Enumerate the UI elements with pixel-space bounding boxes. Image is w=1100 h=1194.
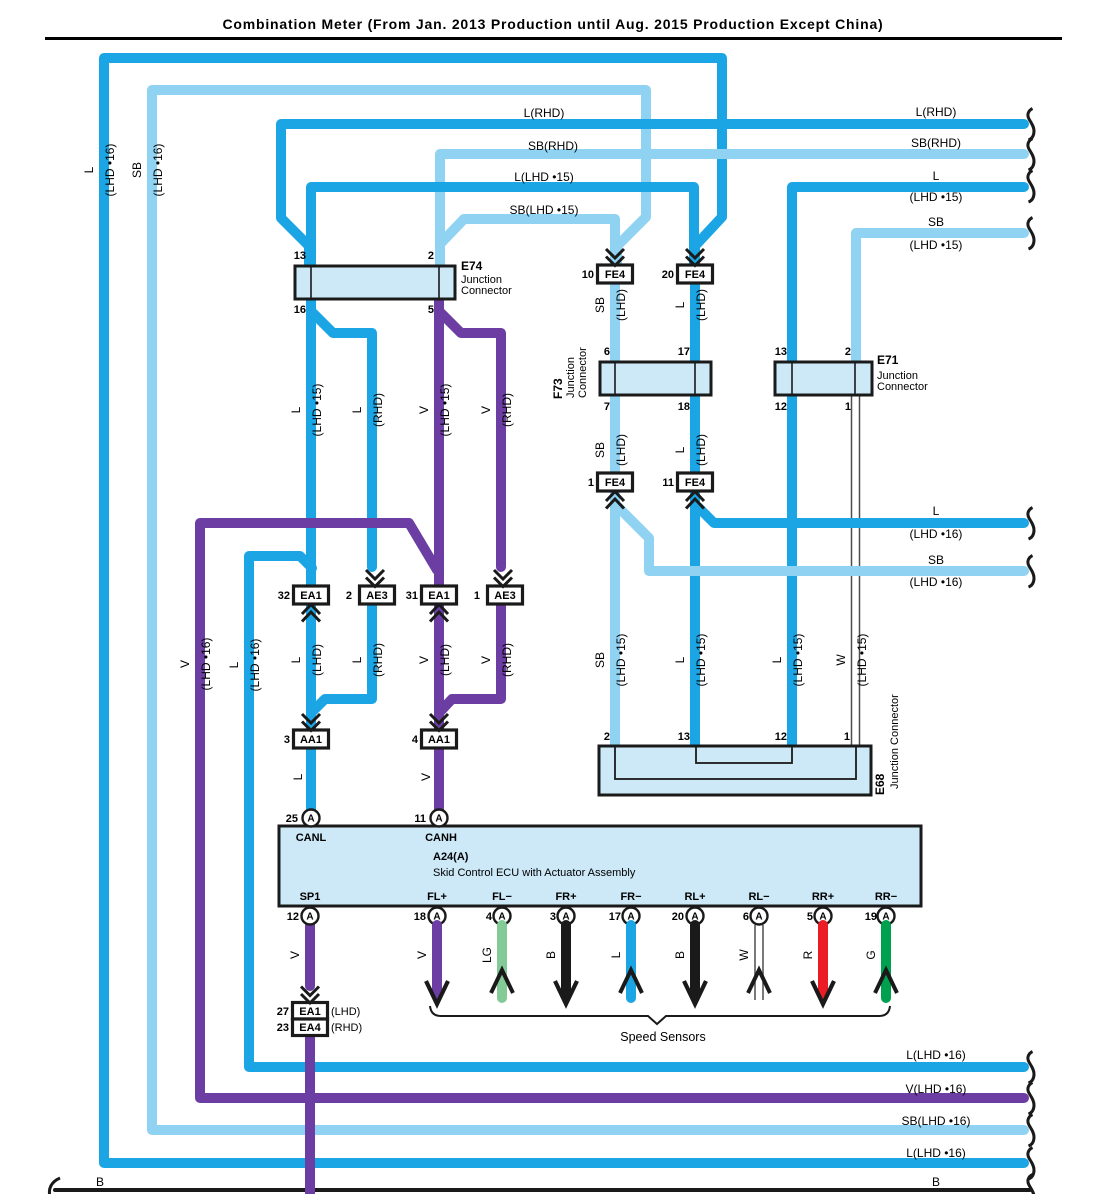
svg-text:V: V — [417, 656, 431, 664]
svg-text:(LHD •15): (LHD •15) — [910, 238, 963, 252]
svg-text:(LHD •16): (LHD •16) — [103, 144, 117, 197]
svg-text:23: 23 — [277, 1022, 289, 1034]
svg-text:FL−: FL− — [492, 891, 512, 903]
svg-text:Connector: Connector — [877, 381, 928, 393]
svg-text:2: 2 — [604, 731, 610, 743]
svg-text:(LHD): (LHD) — [310, 644, 324, 676]
svg-text:(LHD •15): (LHD •15) — [438, 384, 452, 437]
svg-text:RL+: RL+ — [684, 891, 705, 903]
svg-text:FE4: FE4 — [605, 477, 626, 489]
svg-text:FE4: FE4 — [605, 269, 626, 281]
svg-text:L: L — [770, 656, 784, 663]
svg-text:SB: SB — [928, 215, 944, 229]
svg-text:(LHD •15): (LHD •15) — [791, 634, 805, 687]
svg-text:18: 18 — [414, 911, 426, 923]
svg-text:(LHD •16): (LHD •16) — [151, 144, 165, 197]
svg-text:18: 18 — [678, 401, 690, 413]
svg-text:AE3: AE3 — [494, 590, 515, 602]
svg-text:12: 12 — [775, 731, 787, 743]
svg-text:L: L — [289, 406, 303, 413]
svg-text:L(LHD •16): L(LHD •16) — [906, 1048, 966, 1062]
svg-text:13: 13 — [294, 250, 306, 262]
svg-text:FL+: FL+ — [427, 891, 447, 903]
svg-text:7: 7 — [604, 401, 610, 413]
svg-text:(LHD): (LHD) — [694, 434, 708, 466]
svg-text:V: V — [479, 656, 493, 664]
svg-text:EA1: EA1 — [300, 590, 321, 602]
svg-text:11: 11 — [662, 477, 674, 489]
svg-text:E71: E71 — [877, 353, 899, 367]
svg-text:Connector: Connector — [461, 285, 512, 297]
svg-text:V: V — [419, 773, 433, 781]
svg-text:SB: SB — [593, 442, 607, 458]
svg-text:L: L — [673, 446, 687, 453]
svg-text:32: 32 — [278, 590, 290, 602]
svg-text:B: B — [932, 1175, 940, 1189]
svg-text:FR−: FR− — [620, 891, 641, 903]
svg-text:L: L — [673, 656, 687, 663]
svg-text:B: B — [544, 951, 558, 959]
svg-text:RR+: RR+ — [812, 891, 834, 903]
svg-text:6: 6 — [604, 346, 610, 358]
svg-text:17: 17 — [609, 911, 621, 923]
svg-text:20: 20 — [672, 911, 684, 923]
svg-text:V: V — [288, 951, 302, 959]
svg-text:G: G — [864, 950, 878, 959]
svg-text:L: L — [227, 661, 241, 668]
svg-text:V: V — [415, 951, 429, 959]
svg-text:6: 6 — [743, 911, 749, 923]
svg-text:13: 13 — [678, 731, 690, 743]
svg-text:L: L — [350, 406, 364, 413]
svg-text:Speed Sensors: Speed Sensors — [620, 1030, 705, 1044]
svg-text:(LHD •15): (LHD •15) — [855, 634, 869, 687]
svg-text:16: 16 — [294, 304, 306, 316]
svg-text:E68: E68 — [873, 773, 887, 795]
svg-text:W: W — [737, 949, 751, 961]
svg-text:17: 17 — [678, 346, 690, 358]
svg-text:FR+: FR+ — [555, 891, 576, 903]
svg-text:E74: E74 — [461, 259, 483, 273]
svg-text:3: 3 — [284, 734, 290, 746]
svg-text:27: 27 — [277, 1006, 289, 1018]
svg-text:12: 12 — [287, 911, 299, 923]
svg-text:L: L — [350, 656, 364, 663]
svg-text:Combination Meter (From Jan. 2: Combination Meter (From Jan. 2013 Produc… — [223, 16, 884, 32]
svg-text:19: 19 — [865, 911, 877, 923]
svg-text:A: A — [755, 912, 762, 923]
svg-text:(LHD •16): (LHD •16) — [910, 527, 963, 541]
svg-text:(RHD): (RHD) — [500, 643, 514, 677]
svg-text:(LHD •16): (LHD •16) — [199, 638, 213, 691]
svg-text:B: B — [96, 1175, 104, 1189]
svg-text:20: 20 — [662, 269, 674, 281]
svg-text:CANL: CANL — [296, 832, 327, 844]
svg-text:EA1: EA1 — [299, 1006, 320, 1018]
svg-text:L: L — [933, 169, 940, 183]
svg-text:1: 1 — [588, 477, 594, 489]
svg-text:1: 1 — [474, 590, 480, 602]
svg-text:A24(A): A24(A) — [433, 851, 469, 863]
svg-text:(LHD): (LHD) — [438, 644, 452, 676]
svg-text:25: 25 — [286, 813, 298, 825]
svg-text:1: 1 — [845, 401, 851, 413]
svg-text:1: 1 — [844, 731, 850, 743]
svg-text:EA4: EA4 — [299, 1022, 321, 1034]
svg-text:SB(LHD •16): SB(LHD •16) — [902, 1114, 971, 1128]
svg-text:FE4: FE4 — [685, 269, 706, 281]
svg-text:L: L — [673, 301, 687, 308]
svg-text:L: L — [291, 773, 305, 780]
svg-text:A: A — [307, 814, 314, 825]
svg-text:L: L — [609, 951, 623, 958]
svg-text:(LHD): (LHD) — [614, 434, 628, 466]
svg-text:(LHD •15): (LHD •15) — [910, 190, 963, 204]
svg-text:(LHD): (LHD) — [614, 289, 628, 321]
svg-text:L(RHD): L(RHD) — [524, 106, 565, 120]
svg-text:V: V — [178, 660, 192, 668]
svg-text:EA1: EA1 — [428, 590, 449, 602]
svg-text:SB: SB — [593, 297, 607, 313]
svg-text:2: 2 — [845, 346, 851, 358]
svg-text:SB(RHD): SB(RHD) — [911, 136, 961, 150]
svg-text:10: 10 — [582, 269, 594, 281]
svg-text:FE4: FE4 — [685, 477, 706, 489]
svg-text:W: W — [834, 654, 848, 666]
svg-text:4: 4 — [412, 734, 419, 746]
svg-text:2: 2 — [428, 250, 434, 262]
svg-text:L: L — [82, 166, 96, 173]
svg-text:SB: SB — [928, 553, 944, 567]
svg-text:11: 11 — [414, 813, 426, 825]
svg-text:(RHD): (RHD) — [331, 1022, 362, 1034]
svg-text:(RHD): (RHD) — [371, 643, 385, 677]
svg-text:(LHD): (LHD) — [331, 1006, 360, 1018]
svg-text:(RHD): (RHD) — [500, 393, 514, 427]
svg-text:V: V — [479, 406, 493, 414]
svg-text:(LHD •15): (LHD •15) — [614, 634, 628, 687]
svg-text:AA1: AA1 — [300, 734, 322, 746]
svg-text:4: 4 — [486, 911, 493, 923]
svg-text:V(LHD •16): V(LHD •16) — [906, 1082, 967, 1096]
svg-text:(LHD •15): (LHD •15) — [694, 634, 708, 687]
svg-text:A: A — [435, 814, 442, 825]
svg-text:SB: SB — [130, 162, 144, 178]
svg-text:L(LHD •15): L(LHD •15) — [514, 170, 574, 184]
svg-text:L: L — [289, 656, 303, 663]
svg-text:LG: LG — [480, 947, 494, 963]
svg-text:SP1: SP1 — [300, 891, 321, 903]
svg-text:SB(RHD): SB(RHD) — [528, 139, 578, 153]
svg-text:5: 5 — [807, 911, 813, 923]
svg-text:R: R — [801, 950, 815, 959]
svg-text:A: A — [306, 912, 313, 923]
svg-text:L(LHD •16): L(LHD •16) — [906, 1146, 966, 1160]
svg-text:3: 3 — [550, 911, 556, 923]
svg-text:(RHD): (RHD) — [371, 393, 385, 427]
svg-text:5: 5 — [428, 304, 434, 316]
svg-text:31: 31 — [406, 590, 418, 602]
svg-text:(LHD •16): (LHD •16) — [248, 639, 262, 692]
svg-text:V: V — [417, 406, 431, 414]
svg-text:Connector: Connector — [577, 347, 589, 398]
svg-text:RL−: RL− — [748, 891, 769, 903]
svg-text:RR−: RR− — [875, 891, 897, 903]
svg-text:AA1: AA1 — [428, 734, 450, 746]
svg-text:(LHD •15): (LHD •15) — [310, 384, 324, 437]
svg-text:L: L — [933, 504, 940, 518]
svg-text:AE3: AE3 — [366, 590, 387, 602]
svg-text:F73: F73 — [551, 378, 565, 399]
svg-text:CANH: CANH — [425, 832, 457, 844]
svg-text:13: 13 — [775, 346, 787, 358]
svg-text:12: 12 — [775, 401, 787, 413]
svg-text:Skid Control ECU with Actuator: Skid Control ECU with Actuator Assembly — [433, 867, 636, 879]
svg-text:2: 2 — [346, 590, 352, 602]
svg-text:Junction Connector: Junction Connector — [889, 694, 901, 789]
svg-text:SB(LHD •15): SB(LHD •15) — [510, 203, 579, 217]
svg-text:(LHD): (LHD) — [694, 289, 708, 321]
svg-text:SB: SB — [593, 652, 607, 668]
svg-text:B: B — [673, 951, 687, 959]
svg-text:Junction: Junction — [565, 357, 577, 398]
svg-text:(LHD •16): (LHD •16) — [910, 575, 963, 589]
svg-text:L(RHD): L(RHD) — [916, 105, 957, 119]
